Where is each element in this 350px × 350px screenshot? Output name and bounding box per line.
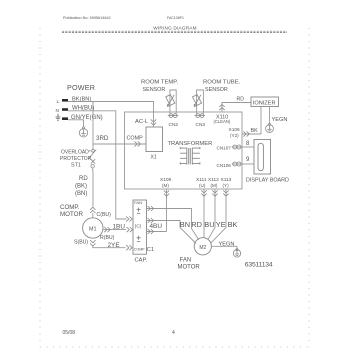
main control board <box>125 112 243 189</box>
connector CN106 <box>232 162 242 166</box>
svg-text:CAP.: CAP. <box>135 258 148 264</box>
svg-text:POWER: POWER <box>67 83 95 92</box>
connector chevrons M1 bottom <box>90 240 95 246</box>
ionizer box <box>251 97 279 107</box>
display board <box>254 140 271 175</box>
svg-text:YEGN: YEGN <box>272 117 288 123</box>
wire capacitor bottom terminal to X109 <box>147 231 167 233</box>
ground circle fan <box>233 249 240 258</box>
svg-text:CN106: CN106 <box>217 163 232 168</box>
capacitor C1 <box>133 200 147 254</box>
svg-text:TRANSFORMER: TRANSFORMER <box>168 141 213 147</box>
connector chevrons X106 <box>243 131 249 136</box>
svg-text:2YE: 2YE <box>108 242 120 249</box>
overload protector ST1 <box>88 149 96 171</box>
connector CN107 <box>232 145 242 149</box>
svg-text:R(BU): R(BU) <box>100 235 115 241</box>
wire capacitor FAN terminal to fan motor (RD) <box>147 209 199 240</box>
svg-text:(U): (U) <box>199 183 206 188</box>
svg-text:L: L <box>57 99 60 105</box>
wire X110 to ionizer <box>222 103 251 113</box>
connector chevrons AC-L <box>151 119 156 125</box>
svg-text:YEGN: YEGN <box>219 242 235 248</box>
svg-text:COMP: COMP <box>127 136 144 142</box>
svg-text:4: 4 <box>172 330 175 336</box>
svg-text:RD: RD <box>191 220 202 229</box>
wire pin 9 to display board <box>242 163 254 165</box>
wire pin 8 to display board <box>242 146 254 148</box>
connector chevrons 2YE <box>126 245 132 250</box>
svg-text:OVERLOAD: OVERLOAD <box>61 149 89 155</box>
thermistor room temp <box>166 95 175 107</box>
svg-text:(Y): (Y) <box>223 183 230 188</box>
svg-text:WIRING DIAGRAM: WIRING DIAGRAM <box>153 26 196 31</box>
compressor motor M1 <box>83 218 103 238</box>
wire X111 BU to fan motor <box>203 189 205 238</box>
svg-text:IONIZER: IONIZER <box>253 101 276 107</box>
svg-text:C(BU): C(BU) <box>97 212 112 218</box>
transformer T1 <box>180 147 200 165</box>
wire compressor feed from L <box>92 102 94 207</box>
svg-text:BN: BN <box>180 220 190 229</box>
connector chevrons FAN terminal <box>148 206 154 211</box>
wire X109 down <box>166 189 168 232</box>
connector chevrons X109 <box>164 190 169 196</box>
earth terminal symbol <box>56 114 61 120</box>
ground circle ionizer <box>266 123 274 132</box>
connector chevrons COMP <box>135 141 141 146</box>
header rule <box>62 31 287 32</box>
svg-text:BK: BK <box>228 220 238 229</box>
svg-text:C1: C1 <box>147 247 154 253</box>
thermistor room tube <box>192 95 201 107</box>
wire X106 BK <box>242 133 261 135</box>
svg-text:63511134: 63511134 <box>245 262 273 269</box>
svg-text:FAN: FAN <box>180 258 192 264</box>
svg-text:BU: BU <box>204 220 214 229</box>
wire 3RD to COMP input <box>93 143 146 145</box>
svg-text:PROTECTOR: PROTECTOR <box>60 156 92 162</box>
svg-text:CN107: CN107 <box>217 146 232 151</box>
svg-text:1BU: 1BU <box>113 223 126 230</box>
svg-text:N: N <box>56 108 60 114</box>
connector chevrons N into capacitor <box>126 216 132 221</box>
fan motor M2 <box>194 238 211 255</box>
wire sensor1 loop <box>170 90 176 114</box>
svg-text:MOTOR: MOTOR <box>178 265 201 271</box>
wire AC-L into X1 <box>153 112 155 127</box>
connector chevrons M1 top <box>90 207 95 213</box>
wire fan motor ground YEGN <box>211 246 237 249</box>
svg-text:(BK): (BK) <box>75 183 87 189</box>
svg-text:05/08: 05/08 <box>63 330 76 336</box>
relay X1 <box>146 127 163 152</box>
svg-text:M1: M1 <box>89 227 97 233</box>
svg-text:M2: M2 <box>199 245 206 251</box>
svg-text:DISPLAY BOARD: DISPLAY BOARD <box>246 178 289 184</box>
svg-text:ST1: ST1 <box>71 163 81 169</box>
svg-text:COMP.: COMP. <box>60 204 80 211</box>
svg-text:(C): (C) <box>135 224 142 229</box>
connector CN3 <box>195 114 206 118</box>
wire capacitor C terminal to fan motor (BN) <box>147 221 197 244</box>
svg-text:CN2: CN2 <box>169 122 179 128</box>
svg-text:SENSOR: SENSOR <box>143 87 166 93</box>
svg-text:(BN): (BN) <box>75 191 87 197</box>
svg-text:RD: RD <box>79 176 88 182</box>
wire M1 bottom to capacitor 2YE <box>93 246 126 248</box>
wire X113 BK to fan motor <box>211 189 226 243</box>
svg-text:YE: YE <box>216 220 226 229</box>
svg-text:X1: X1 <box>151 155 157 161</box>
svg-text:CN3: CN3 <box>196 122 206 128</box>
wire M1 top <box>92 213 94 218</box>
svg-text:Publication No: 5995614642: Publication No: 5995614642 <box>63 16 111 20</box>
svg-text:S(BU): S(BU) <box>74 239 88 245</box>
connector chevrons bottom terminal <box>148 229 154 234</box>
svg-text:(M): (M) <box>211 183 218 188</box>
wire ionizer to BK junction <box>260 107 262 135</box>
connector chevrons on 1BU wire <box>104 227 110 232</box>
wire ionizer to ground <box>269 107 271 124</box>
svg-text:ROOM TEMP.: ROOM TEMP. <box>141 79 178 85</box>
wire M1 right to capacitor <box>103 229 126 231</box>
svg-text:AC-L: AC-L <box>135 119 149 125</box>
svg-text:(M): (M) <box>162 183 169 188</box>
svg-text:MOTOR: MOTOR <box>60 211 83 218</box>
svg-text:COMP: COMP <box>134 247 145 251</box>
connector chevrons C terminal <box>148 218 154 223</box>
wire sensor2 loop <box>197 90 204 114</box>
wire N <box>68 111 127 219</box>
chassis ground circle <box>79 127 87 137</box>
svg-text:BK: BK <box>251 128 259 134</box>
svg-text:(Y2): (Y2) <box>230 133 239 138</box>
svg-text:SENSOR: SENSOR <box>205 87 228 93</box>
wire L <box>68 102 154 113</box>
wire ground to chassis <box>68 120 84 127</box>
svg-text:FAN: FAN <box>134 200 142 205</box>
svg-text:RD: RD <box>237 97 245 103</box>
svg-text:ROOM TUBE.: ROOM TUBE. <box>203 79 241 85</box>
svg-text:(CLEAN): (CLEAN) <box>214 119 231 124</box>
svg-text:FAC106P1: FAC106P1 <box>167 16 184 20</box>
connector CN2 <box>168 114 179 118</box>
wire X112 YE to fan motor <box>208 189 215 239</box>
connector chevrons X110 <box>219 104 224 110</box>
svg-text:3RD: 3RD <box>96 135 109 142</box>
